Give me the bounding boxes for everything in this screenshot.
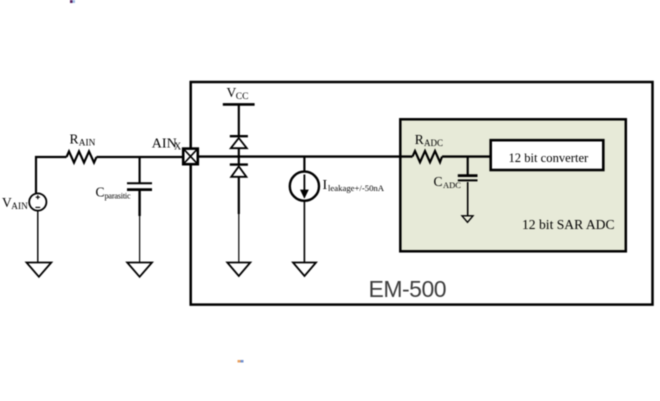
ground (current source) xyxy=(293,263,316,277)
diode D1 (to VCC) xyxy=(230,136,248,148)
svg-text:AIN: AIN xyxy=(11,202,28,212)
label Cparasitic xyxy=(96,185,131,201)
wire: RADC to converter box xyxy=(442,155,491,157)
svg-text:R: R xyxy=(415,132,424,147)
wire: Cparasitic to ground xyxy=(138,191,140,216)
label VCC xyxy=(227,85,249,102)
wire: VCC to diode D1 xyxy=(238,105,240,136)
artifact dot top xyxy=(70,0,75,3)
VCC rail bar xyxy=(223,103,255,106)
wire: D2 to ground xyxy=(238,177,240,214)
svg-text:C: C xyxy=(96,185,105,200)
wire: CADC to ground xyxy=(467,182,469,216)
capacitor Cparasitic xyxy=(127,182,152,184)
wire: junction down to CADC xyxy=(467,157,469,175)
artifact dot bottom xyxy=(238,360,244,363)
resistor RAIN xyxy=(67,151,97,162)
ground (Cparasitic) xyxy=(127,263,152,277)
svg-text:C: C xyxy=(434,174,443,189)
wire: resistor to AINx xyxy=(97,156,184,158)
wire: current source to ground xyxy=(303,201,305,262)
wire: rail down to current source xyxy=(303,157,305,172)
wire: AINx to RADC (main rail) xyxy=(198,155,413,157)
label Ileakage xyxy=(323,178,385,193)
EM-500 box xyxy=(191,82,653,305)
ground (diode D2) xyxy=(227,263,250,277)
label RADC xyxy=(415,132,443,148)
svg-text:AIN: AIN xyxy=(79,139,96,149)
svg-text:R: R xyxy=(70,132,79,147)
resistor RADC xyxy=(413,151,443,162)
wire: junction down to Cparasitic xyxy=(139,157,141,183)
ground (VAIN) xyxy=(27,263,52,277)
capacitor CADC xyxy=(458,174,478,177)
svg-text:parasitic: parasitic xyxy=(105,191,131,200)
shaded 12-bit SAR ADC box xyxy=(400,119,626,251)
svg-text:12 bit SAR ADC: 12 bit SAR ADC xyxy=(522,217,615,232)
svg-text:AIN: AIN xyxy=(152,136,177,151)
label CADC xyxy=(434,174,462,190)
current source Ileakage xyxy=(290,172,319,201)
label AINx xyxy=(152,136,182,152)
svg-text:EM-500: EM-500 xyxy=(369,276,447,302)
label VAIN xyxy=(2,195,28,212)
svg-text:ADC: ADC xyxy=(424,138,443,148)
wire: D1 to rail xyxy=(238,148,240,156)
diode D2 (to ground) xyxy=(230,157,248,177)
label RAIN xyxy=(70,132,96,149)
wire: VAIN up and to resistor xyxy=(36,157,67,194)
svg-text:X: X xyxy=(174,141,182,152)
wire: VAIN to ground xyxy=(37,211,39,262)
12 bit converter box U1 xyxy=(491,140,604,170)
voltage source VAIN xyxy=(29,193,46,210)
node AINx pin symbol xyxy=(183,149,198,165)
svg-text:leakage+/-50nA: leakage+/-50nA xyxy=(328,183,385,193)
ground (CADC, small) xyxy=(462,216,473,223)
svg-text:CC: CC xyxy=(236,92,249,102)
svg-text:I: I xyxy=(323,178,328,193)
svg-text:ADC: ADC xyxy=(443,180,461,190)
svg-text:12 bit converter: 12 bit converter xyxy=(509,151,590,165)
